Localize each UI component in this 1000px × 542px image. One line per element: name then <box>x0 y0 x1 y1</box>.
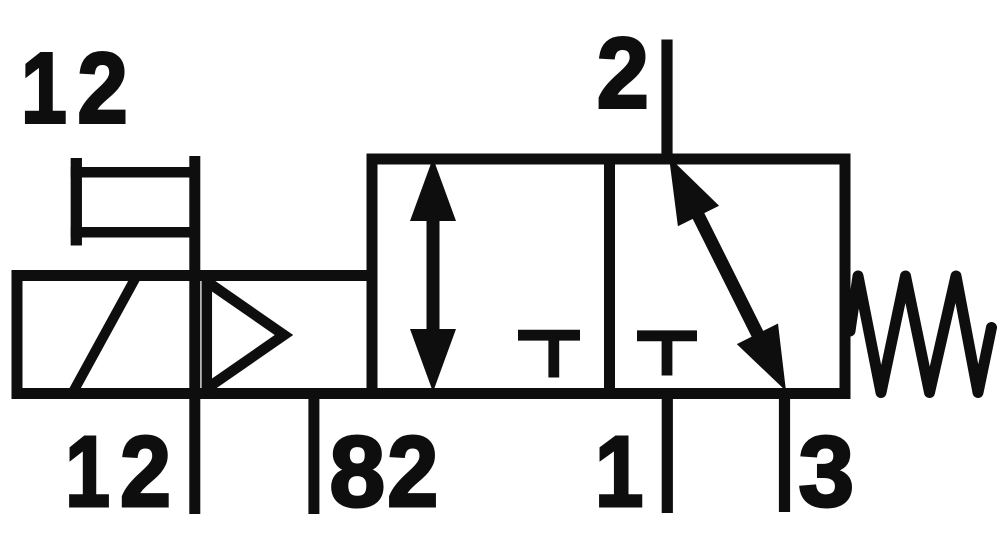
svg-text:2: 2 <box>387 416 438 528</box>
port 82 wire <box>308 395 319 514</box>
armature bracket bottom rung <box>71 227 199 238</box>
svg-text:2: 2 <box>77 33 127 145</box>
valve body position b box <box>372 159 610 394</box>
armature bracket left cap <box>71 158 82 246</box>
svg-text:1: 1 <box>595 416 644 528</box>
svg-text:2: 2 <box>120 416 171 528</box>
pilot line 12 vertical wire <box>189 156 200 514</box>
port 1 wire <box>662 390 673 513</box>
blocked port T (position a) <box>637 336 697 376</box>
flow arrow 2-3 top head <box>669 157 719 226</box>
port 2 wire <box>661 40 672 165</box>
blocked port T (position b) <box>518 335 580 377</box>
diagonal arrow group <box>669 157 786 391</box>
flow arrow 2-3 bottom head <box>737 324 786 392</box>
svg-text:1: 1 <box>21 33 67 145</box>
flow arrow (position b) top head <box>410 158 456 221</box>
solenoid diagonal stroke <box>73 277 136 392</box>
svg-text:2: 2 <box>597 18 649 130</box>
valve body position a box <box>610 159 846 394</box>
svg-text:3: 3 <box>799 416 855 528</box>
flow arrow (position b) bottom head <box>410 329 456 392</box>
armature bracket top rung <box>71 167 199 178</box>
svg-text:1: 1 <box>65 416 110 528</box>
flow arrow 2-3 shaft (position a) <box>690 199 765 349</box>
svg-text:8: 8 <box>330 416 386 528</box>
pilot triangle <box>207 282 284 389</box>
actuator box (solenoid/pilot) <box>17 276 372 394</box>
port 3 wire <box>779 390 790 512</box>
return spring <box>850 276 992 393</box>
flow arrow (position b) shaft <box>427 210 440 330</box>
